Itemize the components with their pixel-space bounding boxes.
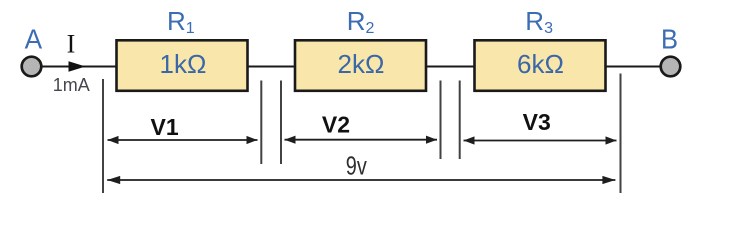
extension line V2 right xyxy=(440,81,442,160)
svg-text:V3: V3 xyxy=(523,109,551,135)
wire A to R1 xyxy=(42,66,117,68)
wire R1 to R2 xyxy=(248,66,296,68)
svg-text:V2: V2 xyxy=(322,112,350,138)
current arrow I xyxy=(69,61,86,72)
dimension arrow V2 xyxy=(285,136,438,144)
extension line V3 left xyxy=(459,81,461,160)
wire R3 to B xyxy=(606,66,662,68)
dimension arrow V1 xyxy=(108,136,258,144)
extension line right (node B side) xyxy=(620,74,622,194)
svg-text:1mA: 1mA xyxy=(53,75,90,95)
svg-text:V1: V1 xyxy=(151,114,179,140)
wire R2 to R3 xyxy=(426,66,475,68)
resistor R1 xyxy=(117,40,248,91)
svg-text:R2: R2 xyxy=(347,6,375,37)
svg-text:A: A xyxy=(25,24,43,55)
resistor R2 xyxy=(295,40,426,91)
svg-text:R3: R3 xyxy=(525,6,553,37)
svg-text:2kΩ: 2kΩ xyxy=(338,49,385,79)
terminal A xyxy=(22,57,42,77)
terminal B xyxy=(661,57,681,77)
extension line V1 right xyxy=(260,81,262,165)
svg-text:B: B xyxy=(661,24,678,55)
dimension arrow 9v total xyxy=(107,176,615,184)
svg-text:9v: 9v xyxy=(346,150,367,180)
dimension arrow V3 xyxy=(464,136,617,144)
svg-text:R1: R1 xyxy=(167,6,195,37)
extension line left (node A side) xyxy=(102,79,104,193)
extension line V2 left xyxy=(280,81,282,165)
svg-text:6kΩ: 6kΩ xyxy=(517,49,564,79)
svg-text:I: I xyxy=(67,30,76,59)
resistor R3 xyxy=(475,40,606,91)
svg-text:1kΩ: 1kΩ xyxy=(160,49,207,79)
